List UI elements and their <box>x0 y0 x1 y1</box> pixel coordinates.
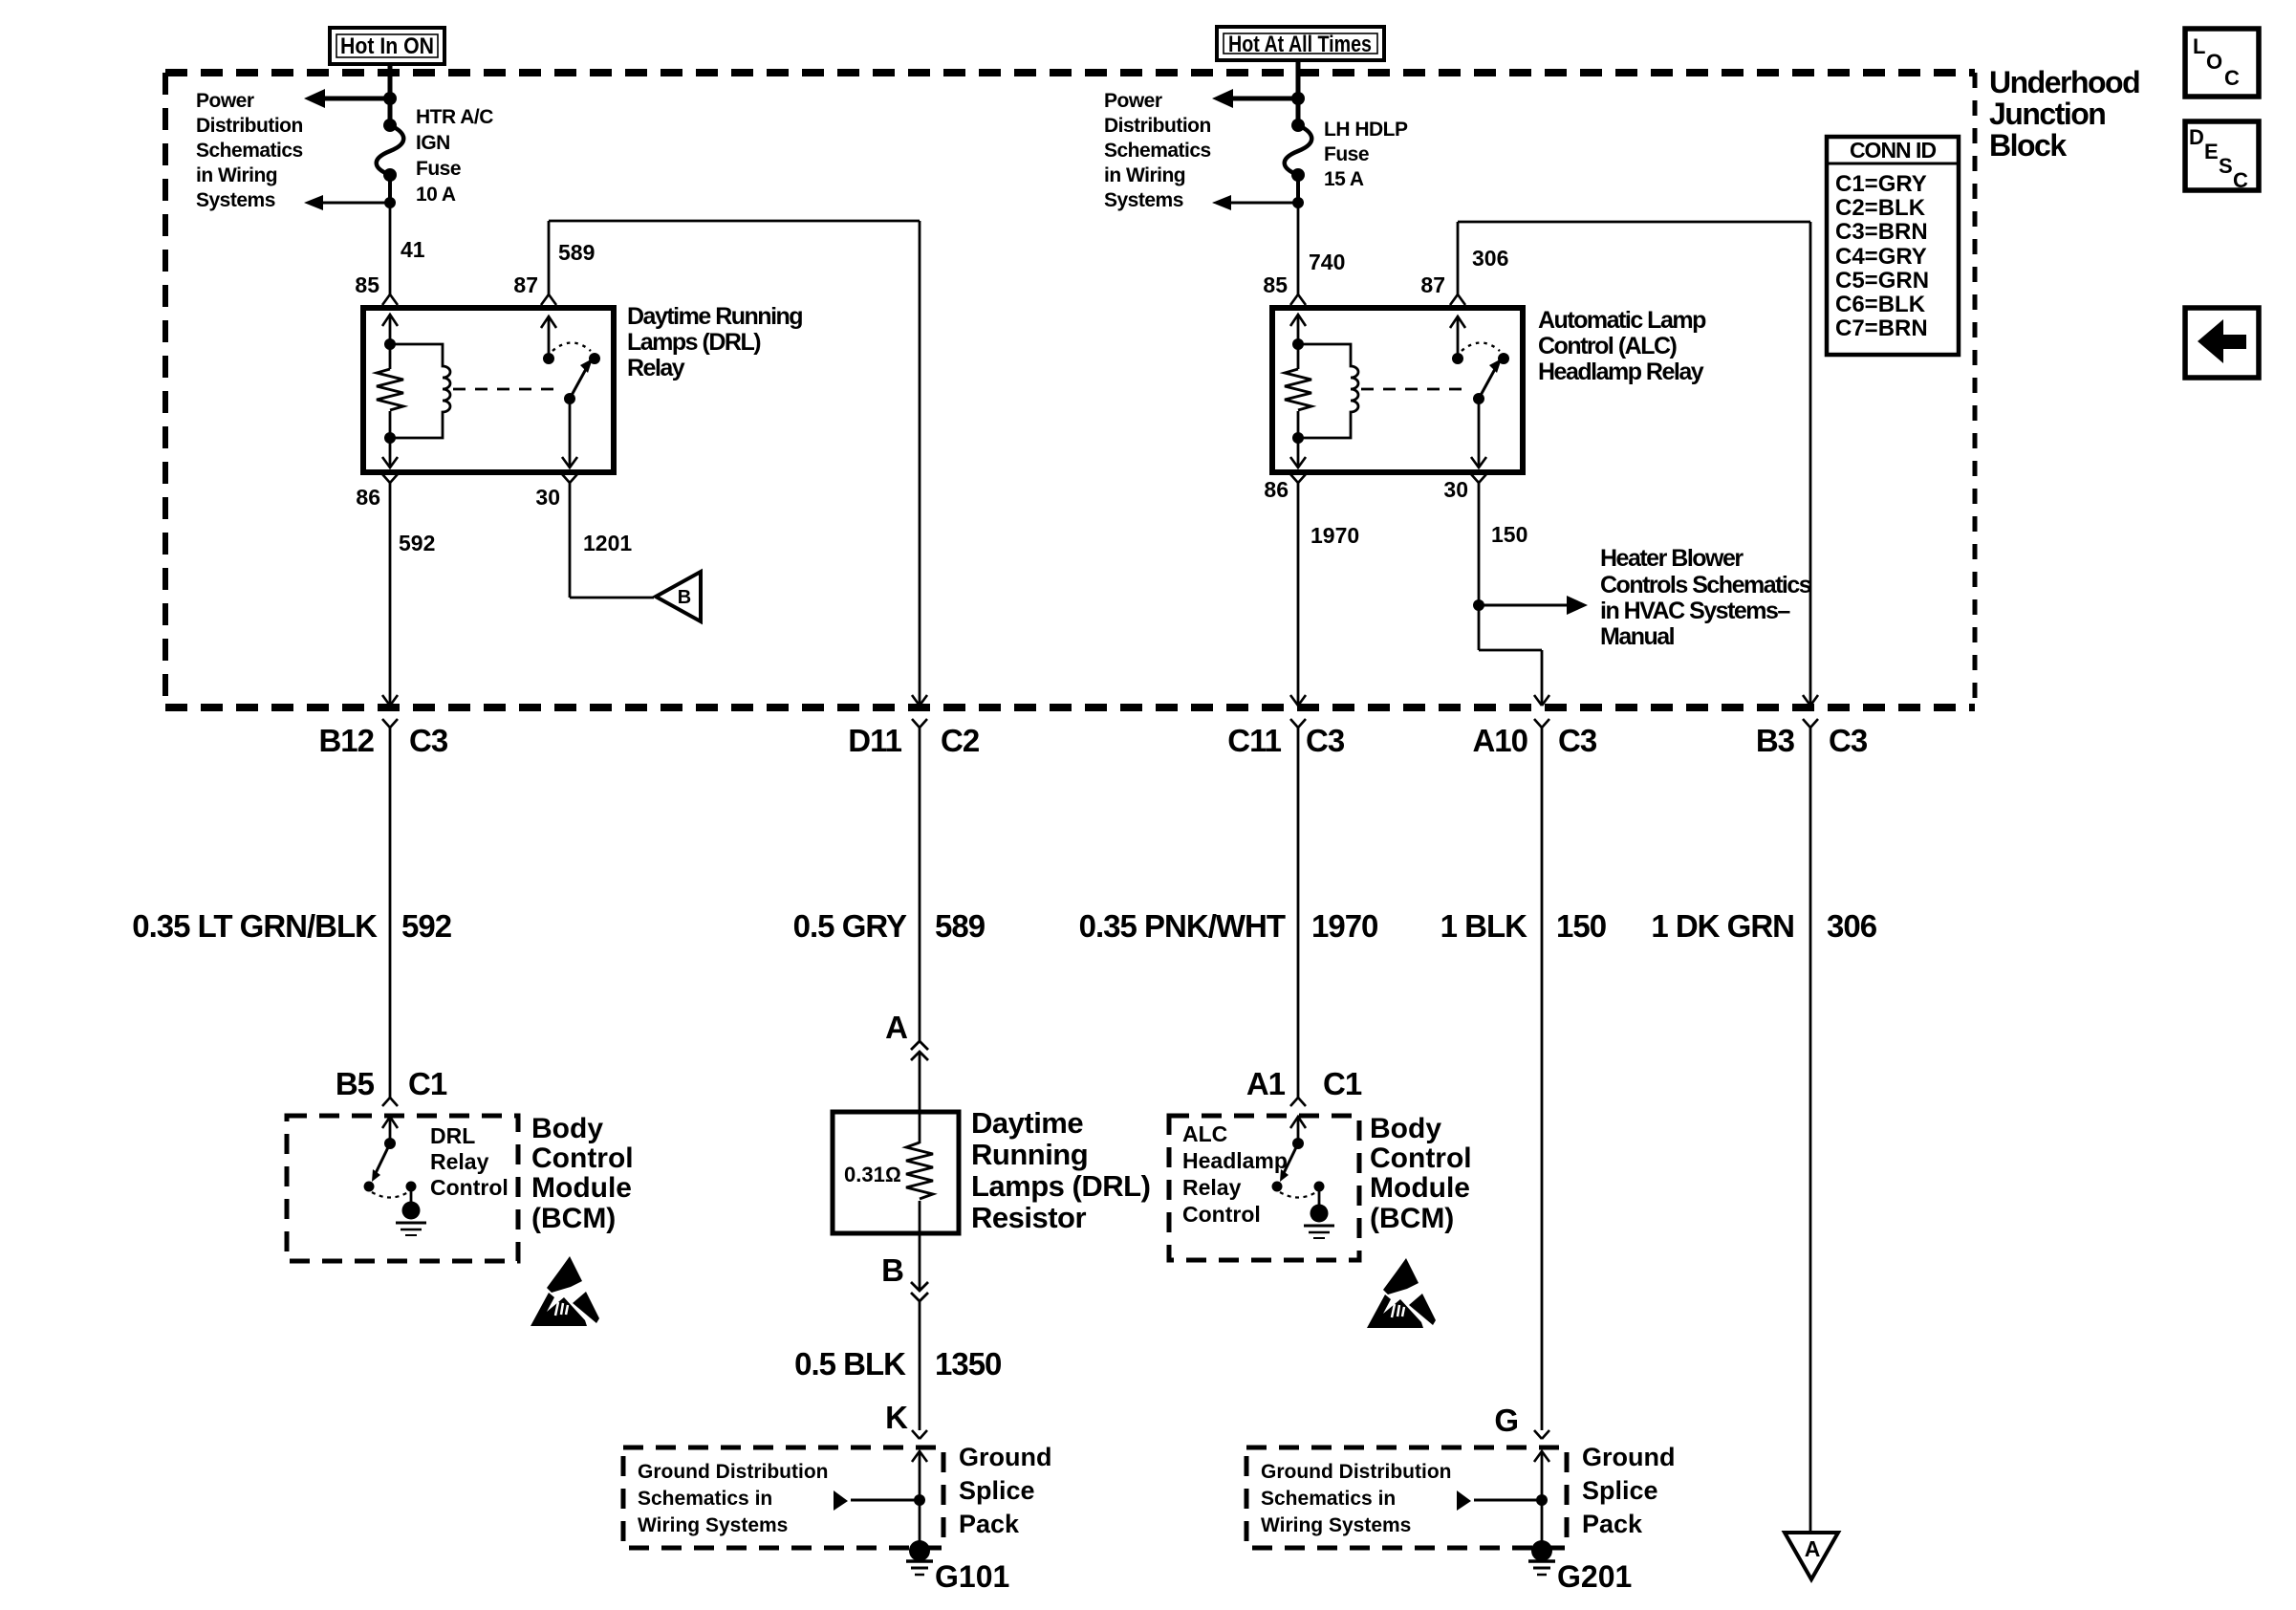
svg-text:C2: C2 <box>941 723 980 758</box>
svg-text:150: 150 <box>1491 522 1527 547</box>
svg-text:C5=GRN: C5=GRN <box>1835 268 1929 294</box>
svg-text:Relay: Relay <box>627 355 685 381</box>
svg-text:Junction: Junction <box>1989 97 2105 131</box>
svg-text:87: 87 <box>1420 272 1445 297</box>
svg-text:A: A <box>885 1010 907 1045</box>
svg-text:Automatic Lamp: Automatic Lamp <box>1538 307 1706 334</box>
label 1 BLK 150 <box>1440 908 1606 944</box>
pin 30 connector relay2 <box>1443 474 1486 502</box>
label Body Control Module (BCM) 2 <box>1370 1113 1472 1234</box>
relay1 coil lower branch pin 86 <box>382 411 398 468</box>
connector K <box>885 1400 927 1439</box>
connector A1 C1 <box>1246 1066 1362 1106</box>
label ALC Headlamp Relay Control <box>1182 1121 1288 1227</box>
wire 0.5 BLK 1350 <box>919 1301 921 1430</box>
relay2 switch arm pin 30 <box>1471 359 1502 468</box>
svg-text:592: 592 <box>401 908 452 944</box>
svg-text:Daytime: Daytime <box>971 1106 1083 1140</box>
svg-text:1201: 1201 <box>583 531 632 555</box>
svg-text:Control: Control <box>1182 1202 1261 1227</box>
svg-text:Splice: Splice <box>1582 1476 1658 1505</box>
wire 1 DK GRN 306 <box>1809 728 1812 1532</box>
svg-text:E: E <box>2204 140 2219 163</box>
svg-text:15 A: 15 A <box>1324 168 1364 190</box>
svg-text:(BCM): (BCM) <box>531 1203 616 1234</box>
svg-text:Block: Block <box>1989 128 2067 163</box>
wire 150 arrow into connector C3 <box>1534 695 1549 706</box>
wire 589 from pin 87 relay1 <box>541 221 920 705</box>
svg-text:150: 150 <box>1556 908 1606 944</box>
wire 1970 arrow into connector C3 <box>1290 695 1306 706</box>
svg-text:0.31Ω: 0.31Ω <box>844 1163 901 1186</box>
wire 1201 <box>570 483 654 598</box>
connector C11 C3 <box>1227 719 1345 758</box>
wire 41 <box>389 203 392 294</box>
wire 1 BLK 150 <box>1541 728 1544 1430</box>
connector G <box>1494 1403 1549 1439</box>
wire 306 from pin 87 relay2 <box>1450 222 1810 705</box>
wire 592 arrow into connector C3 <box>382 695 398 706</box>
svg-text:B3: B3 <box>1756 723 1795 758</box>
connector B5 C1 <box>336 1066 447 1106</box>
svg-text:C4=GRY: C4=GRY <box>1835 244 1927 270</box>
svg-text:C3: C3 <box>409 723 448 758</box>
label 0.5 BLK 1350 <box>794 1346 1001 1382</box>
svg-text:Relay: Relay <box>430 1149 489 1174</box>
BCM 2 dashed box <box>1169 1116 1359 1260</box>
svg-text:D: D <box>2189 125 2204 149</box>
svg-text:1 DK GRN: 1 DK GRN <box>1651 908 1794 944</box>
svg-text:740: 740 <box>1309 250 1345 274</box>
wire 740 <box>1297 203 1300 294</box>
svg-text:O: O <box>2206 50 2222 74</box>
off-page connector A triangle <box>1785 1533 1838 1579</box>
label 0.5 GRY 589 <box>793 908 986 944</box>
svg-text:Resistor: Resistor <box>971 1201 1086 1234</box>
svg-text:HTR A/C: HTR A/C <box>416 106 493 128</box>
svg-text:A10: A10 <box>1472 723 1527 758</box>
svg-text:1970: 1970 <box>1311 908 1377 944</box>
relay1 switch arm pin 30 <box>562 359 593 468</box>
svg-text:CONN ID: CONN ID <box>1850 138 1937 163</box>
svg-text:30: 30 <box>1443 477 1468 502</box>
wire 592 upper <box>389 483 392 705</box>
pin 30 connector relay1 <box>535 474 577 510</box>
svg-text:1970: 1970 <box>1310 523 1359 548</box>
label Power Distribution Schematics in Wiring Systems (col3) <box>1104 90 1211 211</box>
svg-text:C1=GRY: C1=GRY <box>1835 171 1927 197</box>
connector B3 C3 <box>1756 719 1868 758</box>
svg-text:592: 592 <box>399 531 435 555</box>
svg-text:Ground Distribution: Ground Distribution <box>1261 1461 1451 1483</box>
relay1 coil resistor zigzag <box>377 369 403 410</box>
node junction 150 to HVAC <box>1473 599 1484 611</box>
svg-text:Fuse: Fuse <box>1324 143 1369 165</box>
relay2 contact travel dotted arc <box>1462 343 1500 352</box>
label Power Distribution Schematics in Wiring Systems (col1) <box>196 90 303 211</box>
svg-text:Headlamp Relay: Headlamp Relay <box>1538 359 1704 385</box>
svg-text:Controls Schematics: Controls Schematics <box>1600 572 1811 598</box>
node junction col1 top <box>383 92 397 105</box>
svg-text:in Wiring: in Wiring <box>196 164 277 186</box>
pin 85 connector chevron relay1 <box>382 294 398 305</box>
svg-text:1350: 1350 <box>935 1346 1001 1382</box>
svg-text:Systems: Systems <box>196 189 275 211</box>
svg-text:DRL: DRL <box>430 1123 475 1148</box>
svg-text:A: A <box>1805 1536 1821 1561</box>
relay2 coil winding <box>1298 344 1358 438</box>
legend LOC box <box>2185 29 2259 97</box>
svg-text:G101: G101 <box>935 1559 1009 1594</box>
svg-text:Lamps (DRL): Lamps (DRL) <box>627 329 761 356</box>
svg-text:C3=BRN: C3=BRN <box>1835 219 1928 245</box>
svg-text:1 BLK: 1 BLK <box>1440 908 1528 944</box>
svg-text:in HVAC Systems–: in HVAC Systems– <box>1600 598 1790 624</box>
relay K2 Automatic Lamp Control (ALC) Headlamp Relay box <box>1272 308 1523 472</box>
svg-text:0.35 PNK/WHT: 0.35 PNK/WHT <box>1079 908 1286 944</box>
svg-text:C: C <box>2233 168 2248 192</box>
svg-text:Distribution: Distribution <box>1104 115 1211 137</box>
svg-text:C2=BLK: C2=BLK <box>1835 195 1926 221</box>
off-page connector B triangle <box>656 572 701 621</box>
svg-text:IGN: IGN <box>416 132 450 154</box>
pin 85 connector chevron relay2 <box>1290 294 1306 305</box>
svg-text:Splice: Splice <box>959 1476 1035 1505</box>
label Underhood Junction Block <box>1989 65 2139 163</box>
flag Hot In ON <box>330 28 444 64</box>
resistor R1 Daytime Running Lamps (DRL) Resistor <box>833 1112 959 1233</box>
relay1 actuation dashed link <box>453 388 563 391</box>
ground G101 <box>906 1540 1009 1594</box>
svg-text:B12: B12 <box>318 723 374 758</box>
svg-text:Schematics: Schematics <box>196 140 303 162</box>
svg-text:C3: C3 <box>1829 723 1868 758</box>
svg-text:in Wiring: in Wiring <box>1104 164 1185 186</box>
svg-text:306: 306 <box>1827 908 1877 944</box>
wire 150 upper <box>1479 483 1542 705</box>
svg-text:Hot In ON: Hot In ON <box>340 33 434 59</box>
fuse LH HDLP 15A <box>1285 119 1312 182</box>
node junction col1 lower <box>384 197 396 208</box>
relay K1 Daytime Running Lamps (DRL) Relay box <box>363 308 614 472</box>
svg-text:Hot At All Times: Hot At All Times <box>1228 32 1372 57</box>
wire 0.35 LT GRN/BLK 592 <box>389 728 392 1098</box>
wire below fuse col1 <box>388 175 392 203</box>
wire arrow to power distribution (lower, col1) <box>304 195 390 210</box>
svg-text:C1: C1 <box>1323 1066 1362 1101</box>
pin 86 connector relay2 <box>1264 474 1306 502</box>
svg-text:Lamps (DRL): Lamps (DRL) <box>971 1169 1150 1203</box>
relay2 NO contact <box>1498 353 1509 364</box>
svg-text:86: 86 <box>356 485 380 510</box>
node splice junction 1 <box>914 1494 925 1506</box>
svg-text:Module: Module <box>1370 1172 1470 1204</box>
svg-text:Pack: Pack <box>1582 1510 1643 1538</box>
CONN ID table <box>1827 137 1959 355</box>
node splice junction 2 <box>1536 1494 1548 1506</box>
svg-text:A1: A1 <box>1246 1066 1286 1101</box>
svg-text:306: 306 <box>1472 246 1508 271</box>
wire arrow to power distribution (top, col3) <box>1212 89 1298 108</box>
wire below fuse col3 <box>1296 175 1300 203</box>
svg-text:0.5 GRY: 0.5 GRY <box>793 908 907 944</box>
svg-text:L: L <box>2193 34 2205 58</box>
wire splice feed arrow 1 <box>834 1490 920 1511</box>
wire into DRL resistor <box>919 1052 921 1143</box>
svg-text:Schematics: Schematics <box>1104 140 1211 162</box>
BCM 1 dashed box <box>287 1116 518 1261</box>
svg-text:Wiring Systems: Wiring Systems <box>638 1514 788 1536</box>
svg-text:C1: C1 <box>408 1066 447 1101</box>
wire into splice 2 <box>1534 1451 1549 1544</box>
svg-text:C7=BRN: C7=BRN <box>1835 315 1928 341</box>
wire arrow to heater blower controls <box>1479 596 1588 615</box>
legend back arrow box <box>2185 308 2259 378</box>
svg-text:589: 589 <box>935 908 986 944</box>
wire 0.35 PNK/WHT 1970 <box>1297 728 1300 1098</box>
fuse HTR A/C IGN 10A <box>377 119 404 182</box>
svg-text:C6=BLK: C6=BLK <box>1835 292 1926 317</box>
label 0.35 PNK/WHT 1970 <box>1079 908 1378 944</box>
wire 1970 upper <box>1297 483 1300 705</box>
node junction col3 top <box>1291 92 1305 105</box>
connector B12 C3 <box>318 719 447 758</box>
svg-text:C3: C3 <box>1558 723 1597 758</box>
svg-text:LH HDLP: LH HDLP <box>1324 119 1408 141</box>
svg-text:Ground Distribution: Ground Distribution <box>638 1461 828 1483</box>
svg-text:Schematics in: Schematics in <box>638 1488 772 1510</box>
wire splice feed arrow 2 <box>1457 1490 1542 1511</box>
label Ground Splice Pack (1) <box>959 1443 1051 1538</box>
wire feed col1 <box>388 64 393 125</box>
svg-text:87: 87 <box>513 272 538 297</box>
svg-text:10 A: 10 A <box>416 184 456 206</box>
label Ground Splice Pack (2) <box>1582 1443 1675 1538</box>
svg-text:Distribution: Distribution <box>196 115 303 137</box>
svg-text:Ground: Ground <box>1582 1443 1675 1471</box>
ESD sensitive symbol 1 <box>531 1256 599 1326</box>
wire arrow to power distribution (lower, col3) <box>1212 195 1298 210</box>
svg-text:G: G <box>1494 1403 1518 1438</box>
label Ground Distribution Schematics in Wiring Systems (2) <box>1261 1461 1451 1536</box>
svg-text:Body: Body <box>1370 1113 1441 1144</box>
svg-text:Control: Control <box>430 1175 509 1200</box>
svg-text:C: C <box>2224 66 2240 90</box>
svg-text:589: 589 <box>558 240 595 265</box>
grommet pass-through A <box>885 1010 928 1060</box>
relay1 coil branch pin 85 <box>382 315 398 369</box>
svg-text:Heater Blower: Heater Blower <box>1600 545 1744 572</box>
BCM2 ALC headlamp relay control switch <box>1272 1117 1335 1238</box>
svg-text:Schematics in: Schematics in <box>1261 1488 1396 1510</box>
relay1 pin 87 fixed contact <box>541 316 556 364</box>
label LH HDLP Fuse 15 A <box>1324 119 1408 190</box>
svg-text:ALC: ALC <box>1182 1121 1227 1146</box>
wire resistor to B <box>919 1201 921 1290</box>
label Body Control Module (BCM) 1 <box>531 1113 634 1234</box>
svg-text:Daytime Running: Daytime Running <box>627 303 802 330</box>
svg-text:Module: Module <box>531 1172 632 1204</box>
BCM1 DRL relay control switch <box>364 1117 427 1235</box>
svg-text:41: 41 <box>401 237 425 262</box>
svg-text:B: B <box>881 1252 903 1288</box>
svg-text:Relay: Relay <box>1182 1175 1242 1200</box>
relay2 coil lower branch pin 86 <box>1290 411 1306 468</box>
wire 589 arrow into connector C2 <box>912 695 927 706</box>
svg-text:85: 85 <box>1263 272 1288 297</box>
svg-text:Control: Control <box>531 1142 634 1174</box>
svg-text:Power: Power <box>196 90 254 112</box>
svg-text:Headlamp: Headlamp <box>1182 1148 1288 1173</box>
relay1 NO contact <box>589 353 600 364</box>
label DRL Relay Control <box>430 1123 509 1200</box>
svg-text:0.5 BLK: 0.5 BLK <box>794 1346 906 1382</box>
svg-text:Fuse: Fuse <box>416 158 461 180</box>
ground splice pack 1 dashed box <box>623 1447 943 1548</box>
svg-text:Systems: Systems <box>1104 189 1183 211</box>
svg-text:Manual: Manual <box>1600 623 1675 650</box>
relay2 coil branch pin 85 <box>1290 315 1306 369</box>
wire arrow to power distribution (top, col1) <box>304 89 390 108</box>
svg-text:86: 86 <box>1264 477 1289 502</box>
svg-text:Body: Body <box>531 1113 603 1144</box>
ESD sensitive symbol 2 <box>1367 1258 1436 1328</box>
svg-text:Pack: Pack <box>959 1510 1020 1538</box>
connector A10 C3 <box>1472 719 1596 758</box>
flag Hot At All Times <box>1217 27 1384 60</box>
svg-text:Ground: Ground <box>959 1443 1051 1471</box>
svg-text:Control (ALC): Control (ALC) <box>1538 333 1678 359</box>
label 0.35 LT GRN/BLK 592 <box>132 908 451 944</box>
relay1 contact travel dotted arc <box>552 343 591 352</box>
svg-text:B: B <box>678 587 691 608</box>
svg-text:B5: B5 <box>336 1066 375 1101</box>
svg-text:Running: Running <box>971 1138 1088 1171</box>
svg-text:G201: G201 <box>1557 1559 1632 1594</box>
relay2 pin 87 fixed contact <box>1450 316 1465 364</box>
wire 0.5 GRY 589 <box>919 728 921 1041</box>
svg-text:C3: C3 <box>1306 723 1345 758</box>
svg-text:Underhood: Underhood <box>1989 65 2139 99</box>
relay2 actuation dashed link <box>1361 388 1471 391</box>
svg-text:Control: Control <box>1370 1142 1472 1174</box>
svg-text:Wiring Systems: Wiring Systems <box>1261 1514 1411 1536</box>
svg-text:K: K <box>885 1400 908 1435</box>
ground G201 <box>1528 1540 1632 1594</box>
svg-text:30: 30 <box>535 485 560 510</box>
relay1 coil winding <box>390 344 450 438</box>
pin 86 connector relay1 <box>356 474 398 510</box>
svg-text:C11: C11 <box>1227 723 1281 758</box>
svg-text:85: 85 <box>355 272 379 297</box>
svg-text:(BCM): (BCM) <box>1370 1203 1454 1234</box>
svg-text:0.35 LT GRN/BLK: 0.35 LT GRN/BLK <box>132 908 378 944</box>
label Heater Blower Controls Schematics in HVAC Systems Manual <box>1600 545 1811 650</box>
legend DESC box <box>2185 121 2259 192</box>
connector D11 C2 <box>848 719 980 758</box>
label Ground Distribution Schematics in Wiring Systems (1) <box>638 1461 828 1536</box>
ground splice pack 2 dashed box <box>1246 1447 1567 1548</box>
underhood junction block dashed border <box>165 73 1975 707</box>
label Automatic Lamp Control (ALC) Headlamp Relay <box>1538 307 1706 385</box>
label 1 DK GRN 306 <box>1651 908 1876 944</box>
wire into splice 1 <box>912 1451 927 1544</box>
node junction col3 lower <box>1292 197 1304 208</box>
label Daytime Running Lamps (DRL) Relay <box>627 303 802 381</box>
label Daytime Running Lamps (DRL) Resistor <box>971 1106 1150 1234</box>
svg-text:Power: Power <box>1104 90 1162 112</box>
wire feed col3 <box>1296 60 1301 125</box>
svg-text:D11: D11 <box>848 723 901 758</box>
label HTR A/C IGN Fuse 10 A <box>416 106 493 206</box>
grommet pass-through B <box>881 1252 928 1301</box>
relay2 coil resistor zigzag <box>1285 369 1311 410</box>
svg-text:S: S <box>2219 154 2233 178</box>
wire 306 arrow into connector C3 <box>1803 695 1818 706</box>
